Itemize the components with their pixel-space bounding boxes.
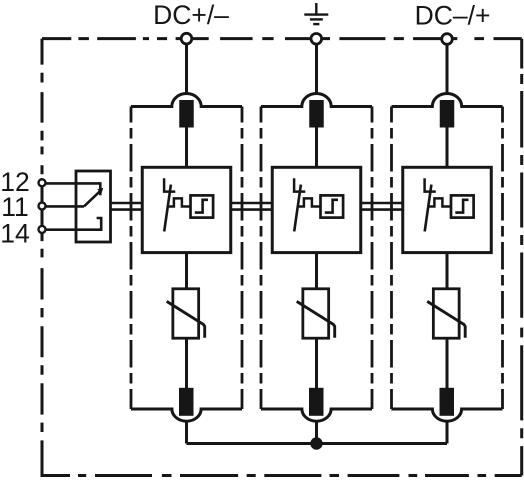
wire terminal 12 to NC contact	[45, 183, 100, 195]
wire varistor to bottom disconnect, module 2	[315, 338, 318, 388]
terminal earth	[311, 34, 322, 45]
junction dot on earth bus	[310, 437, 322, 449]
wire terminal 11 to switch pivot	[45, 205, 84, 208]
device outer dash-dot enclosure border top	[42, 37, 522, 40]
module 2 border bottom edge with plug-contact arc	[261, 409, 372, 421]
thermal disconnect device (bottom), module 2	[309, 388, 324, 416]
device outer dash-dot enclosure border right	[520, 39, 523, 476]
signalling bus double line, contact box to module 1	[111, 203, 144, 210]
module 1 border top edge with plug-contact arc	[131, 94, 242, 107]
terminal DC-/+	[442, 34, 453, 45]
module 1 protection-module dash-dot border left side	[130, 107, 133, 410]
earth symbol	[304, 3, 328, 24]
wire disconnect to SCI switch box, module 1	[185, 128, 188, 168]
changeover switch blade	[84, 191, 100, 206]
wire from terminal to thermal disconnect, module 1	[185, 44, 188, 94]
module 3 border top edge with plug-contact arc	[392, 93, 503, 106]
terminal circle 11	[39, 203, 46, 210]
module 3 border bottom edge with plug-contact arc	[392, 409, 503, 421]
thermal disconnect device (top), module 3	[440, 100, 455, 128]
wire SCI box to varistor, module 3	[446, 253, 449, 289]
svg-text:DC+/–: DC+/–	[153, 0, 229, 30]
signalling bus double line, module 1 to module 2	[231, 203, 273, 210]
SCI switching device box, module 3	[403, 167, 492, 252]
device outer dash-dot enclosure border left	[41, 39, 44, 477]
terminal circle 12	[39, 179, 46, 186]
thermal disconnect device (bottom), module 1	[179, 388, 194, 416]
switch blade arrowhead	[97, 188, 103, 194]
SCI switching device box, module 1	[142, 167, 231, 252]
wire varistor to bottom disconnect, module 1	[185, 338, 188, 388]
module 1 border bottom edge with plug-contact arc	[131, 409, 242, 421]
module 2 protection-module dash-dot border left side	[260, 107, 263, 410]
wire varistor to bottom disconnect, module 3	[446, 338, 449, 388]
varistor, module 2	[297, 289, 335, 338]
wire disconnect to SCI switch box, module 2	[315, 128, 318, 168]
wire module 3 to earth bus	[446, 421, 449, 444]
thermal disconnect device (top), module 2	[309, 100, 324, 128]
svg-text:14: 14	[0, 218, 29, 248]
terminal circle 14	[39, 226, 46, 233]
module 1 protection-module dash-dot border right side	[241, 107, 244, 410]
terminal DC+/-	[181, 33, 192, 44]
module 2 border top edge with plug-contact arc	[261, 93, 372, 106]
thermal disconnect device (top), module 1	[179, 100, 194, 128]
device outer dash-dot enclosure border bottom	[42, 474, 522, 477]
wire module 1 to earth bus	[185, 421, 188, 444]
svg-text:DC–/+: DC–/+	[415, 1, 491, 31]
wire from terminal to thermal disconnect, module 2	[315, 44, 318, 94]
varistor, module 3	[427, 289, 465, 338]
varistor, module 1	[167, 289, 205, 338]
module 2 protection-module dash-dot border right side	[371, 107, 374, 410]
wire disconnect to SCI switch box, module 3	[446, 128, 449, 168]
wire SCI box to varistor, module 1	[185, 253, 188, 289]
wire SCI box to varistor, module 2	[315, 253, 318, 289]
SCI switching device box, module 2	[272, 167, 361, 252]
earth bus wire across module bottoms	[187, 442, 448, 445]
wire from terminal to thermal disconnect, module 3	[446, 44, 449, 94]
signalling bus double line, module 2 to module 3	[361, 203, 403, 210]
thermal disconnect device (bottom), module 3	[440, 388, 455, 416]
module 3 protection-module dash-dot border left side	[390, 107, 393, 410]
wire module 2 to earth bus	[315, 421, 318, 444]
module 3 protection-module dash-dot border right side	[501, 107, 504, 410]
wire terminal 14 to NO contact hook	[45, 218, 101, 230]
remote signalling changeover contact box	[76, 171, 111, 242]
